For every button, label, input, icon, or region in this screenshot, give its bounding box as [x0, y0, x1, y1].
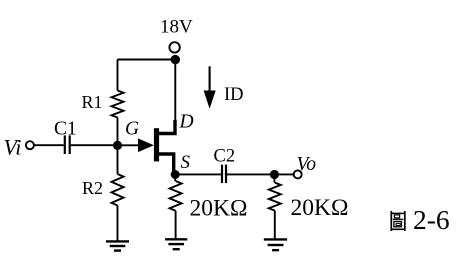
capacitor C2: [222, 165, 226, 184]
junction dot source node S: [171, 170, 180, 179]
svg-text:Vo: Vo: [297, 154, 317, 175]
svg-text:D: D: [179, 112, 194, 133]
capacitor C1: [65, 135, 70, 154]
wire input: [34, 144, 63, 146]
terminal Vi input circle: [26, 141, 34, 149]
svg-text:Vi: Vi: [4, 135, 22, 160]
terminal Vo output circle: [294, 170, 302, 178]
svg-text:20KΩ: 20KΩ: [190, 196, 248, 222]
wire RL to ground: [274, 211, 276, 239]
wire top rail: [118, 59, 176, 61]
junction dot gate node G: [113, 141, 122, 150]
wire output node to RL resistor: [273, 174, 275, 182]
svg-text:C1: C1: [54, 119, 77, 140]
resistor RS 20K left: [170, 181, 182, 211]
svg-text:R1: R1: [82, 92, 103, 112]
svg-text:S: S: [181, 152, 191, 173]
junction dot output node: [270, 170, 279, 179]
wire gate lead: [122, 144, 138, 146]
svg-text:G: G: [125, 119, 139, 140]
resistor R1: [112, 91, 124, 118]
wire C1 to gate node: [71, 144, 114, 146]
transistor Q1 gate arrow: [138, 138, 154, 152]
svg-text:18V: 18V: [160, 17, 193, 38]
current arrow ID head: [204, 91, 216, 109]
svg-text:2-6: 2-6: [413, 204, 450, 235]
transistor Q1 source lead: [159, 154, 174, 172]
wire source node to C2: [175, 173, 221, 175]
junction dot supply node: [171, 55, 180, 64]
wire R1 top lead: [117, 60, 119, 91]
wire output node to Vo terminal: [274, 173, 293, 175]
ground under RL: [264, 239, 287, 250]
transistor Q1 JFET channel bar: [154, 128, 159, 161]
wire R1 to gate node: [117, 118, 119, 146]
transistor Q1 drain lead: [159, 120, 175, 134]
ground under RS: [165, 239, 187, 249]
svg-text:ID: ID: [224, 85, 244, 105]
resistor R2: [112, 174, 124, 205]
current arrow ID shaft: [209, 66, 211, 92]
wire C2 to output node: [227, 173, 274, 175]
wire R2 to ground: [117, 206, 119, 242]
wire gate node to R2: [117, 145, 119, 174]
svg-text:20KΩ: 20KΩ: [291, 195, 349, 221]
wire drain column: [174, 60, 176, 122]
terminal 18V supply circle: [169, 42, 179, 52]
svg-text:C2: C2: [214, 147, 236, 167]
wire source node to RS resistor: [174, 175, 176, 182]
wire RS to ground: [175, 211, 177, 239]
resistor RL 20K right: [269, 183, 281, 211]
figure label glyph tu: [391, 211, 406, 231]
ground under R2: [106, 241, 129, 250]
svg-text:R2: R2: [82, 178, 103, 198]
